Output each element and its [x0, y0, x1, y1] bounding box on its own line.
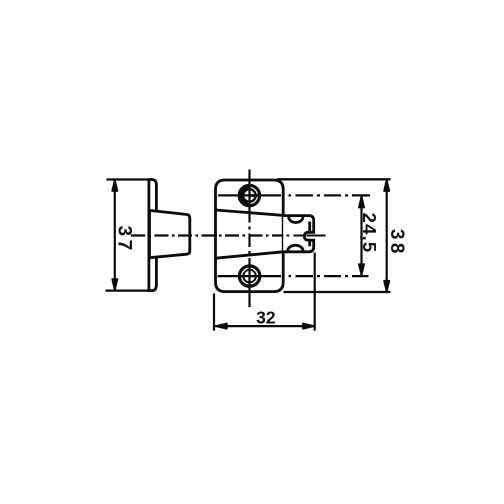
svg-text:38: 38 [386, 229, 407, 257]
svg-text:37: 37 [113, 226, 134, 254]
svg-text:32: 32 [256, 308, 276, 328]
svg-text:24,5: 24,5 [359, 213, 380, 254]
